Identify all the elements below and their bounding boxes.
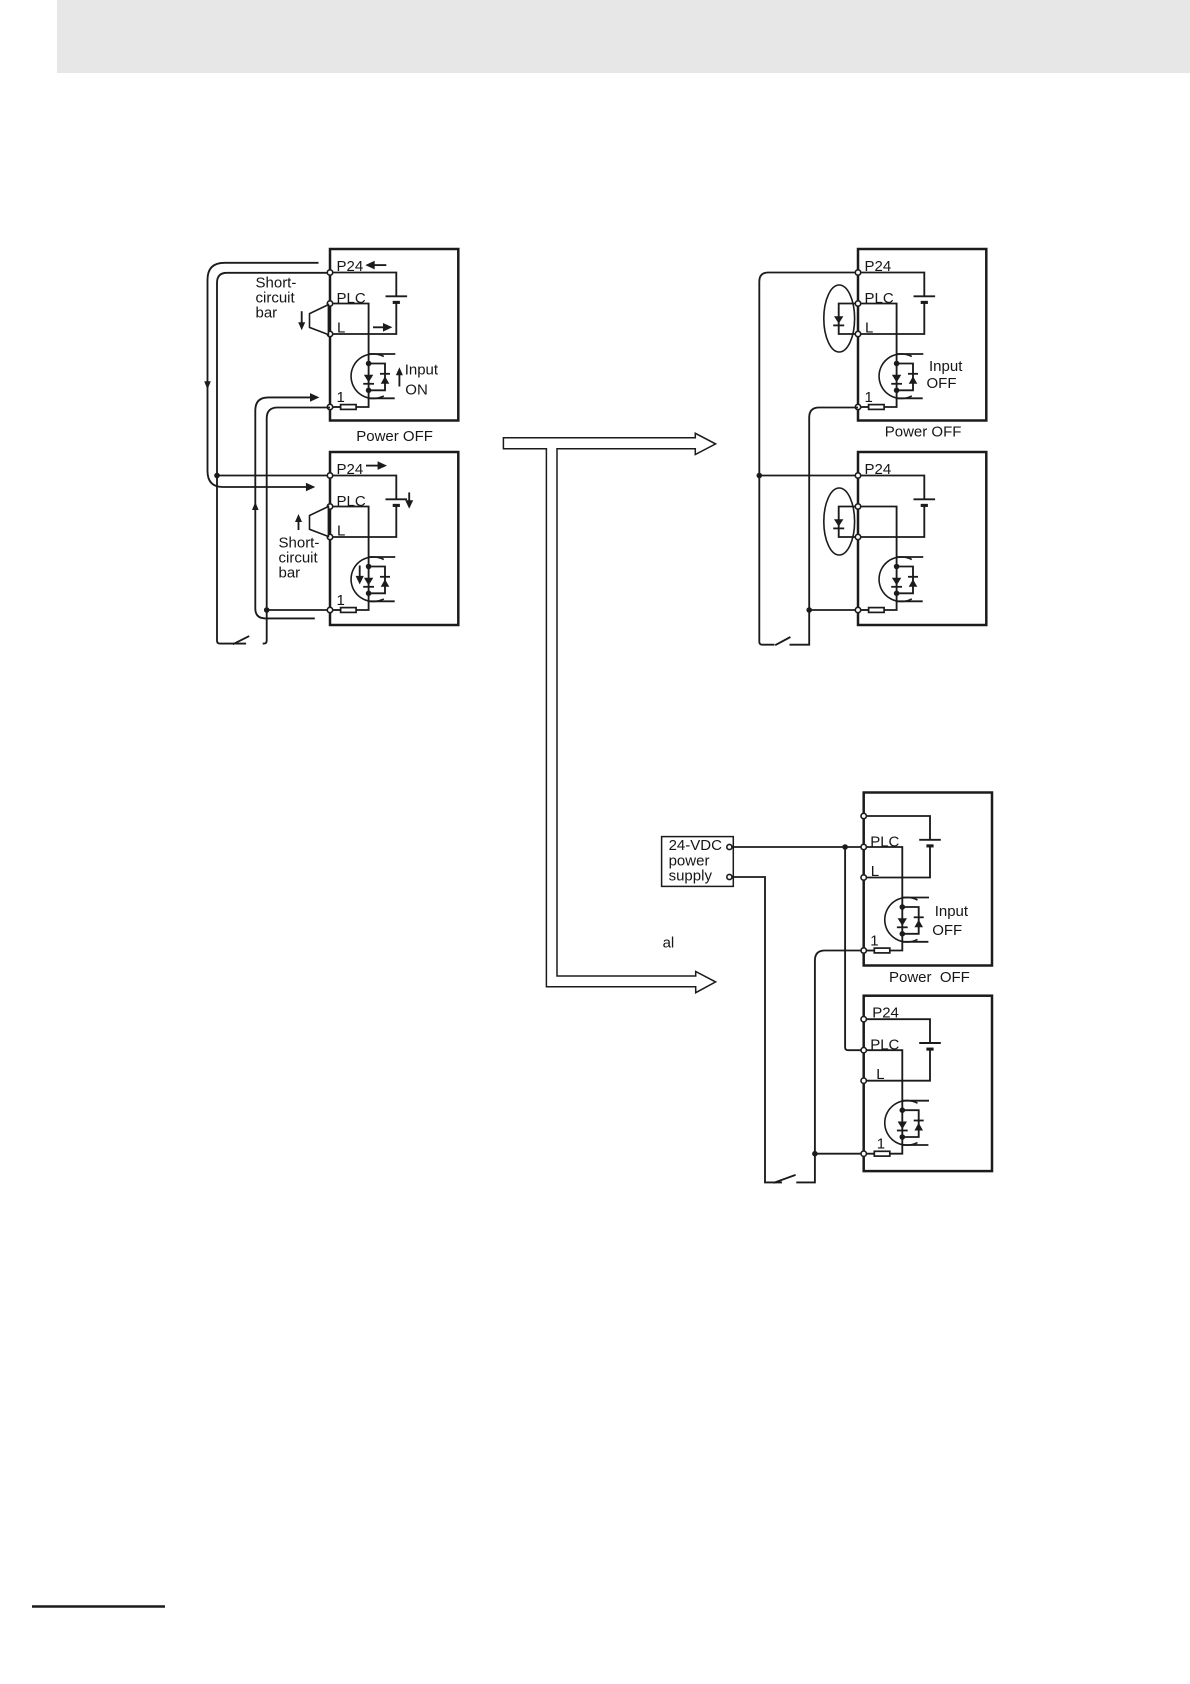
wire resistor to terminal 1 (C2) [864,1153,875,1155]
svg-text:PLC: PLC [337,290,366,307]
input resistor R-C2 [874,1151,890,1156]
svg-text:Power OFF: Power OFF [356,428,433,445]
LED diode branch (A2) [368,567,370,594]
battery B-A2 [386,498,408,500]
terminal P24 (B2) [855,473,860,478]
svg-text:ON: ON [405,382,428,399]
wire PLC to internal circuit (C1) [864,847,903,907]
PLC input unit B1 box [858,249,986,421]
terminal 1 (C1) [861,948,866,953]
junction node (B2) [894,591,900,597]
arrowhead into terminal 1 (A1) [310,393,319,402]
wire P24 to battery (A2) [330,476,396,500]
flow arrowhead down (outer loop) [204,381,211,389]
junction node (A2) [366,591,372,597]
terminal PLC (C1) [861,844,866,849]
wire resistor to terminal 1 (A2) [330,609,341,611]
wire battery to L (C2) [864,1049,930,1081]
svg-text:1: 1 [337,389,345,406]
wire PLC chain down to PLC (C2) [845,847,861,1050]
junction node P24 chain (right) [757,473,763,479]
page header band [57,0,1190,73]
svg-text:PLC: PLC [337,493,366,510]
optocoupler output rail top (C2) [902,1100,929,1102]
supply terminal - [727,874,732,879]
optocoupler output rail top (C1) [902,897,929,899]
current path indicator wire (inner loop) [255,397,314,618]
optocoupler output rail top (A1) [369,353,396,355]
arrow pointing to short-circuit bar (A1) [301,311,303,324]
wire supply + to PLC (C1) [732,846,861,848]
wire P24 to battery (A1) [330,273,396,297]
terminal L (B1) [855,331,860,336]
big outline arrow (transition) [503,433,715,992]
svg-text:1: 1 [870,932,878,949]
wire battery to L (B2) [858,505,924,537]
wire battery to L (B1) [858,302,924,334]
diode D-B1 across PLC-L [839,304,858,335]
battery B-B2 [914,498,936,500]
optocoupler U-A1 circle [351,354,384,399]
wire P24 to battery (B1) [858,273,924,297]
protection diode branch (A1) [369,364,385,391]
PLC input unit A2 box [330,452,458,625]
input ON arrow (A1) [398,374,400,387]
wire P24 chain (A1 to A2) [217,273,327,644]
svg-text:al: al [663,935,675,952]
terminal 1 (A2) [327,607,332,612]
wire PLC to internal circuit (A1) [330,304,369,364]
terminal PLC (A1) [327,301,332,306]
svg-text:P24: P24 [337,258,364,275]
svg-text:L: L [876,1066,884,1083]
wire branch to terminal 1 (A2) [267,609,328,611]
terminal 1 (A1) [327,404,332,409]
current direction arrow at L (A1) [373,326,385,328]
wire P24 to battery (C1) [864,816,930,840]
24-VDC power supply box [662,837,734,887]
wire resistor to terminal 1 (A1) [330,406,341,408]
svg-text:L: L [871,863,879,880]
wire battery to L (A1) [330,302,396,334]
battery B-C2 [919,1042,941,1044]
wire battery to L (A2) [330,505,396,537]
svg-text:L: L [337,522,345,539]
wire battery to L (C1) [864,846,930,878]
optocoupler output rail top (A2) [369,556,396,558]
terminal L (A2) [327,534,332,539]
short-circuit bar tag (A2) [310,507,329,537]
arrow current into P24 (A1) [373,264,386,266]
junction node (C2) [900,1107,906,1113]
power switch SW3 blade [774,1175,796,1183]
wire terminal-1 chain (C1 to C2) [796,951,861,1183]
optocoupler U-C2 circle [885,1101,918,1146]
wire PLC to internal circuit (B2) [858,507,897,567]
wire PLC to internal circuit (B1) [858,304,897,364]
flow arrowhead up (inner loop) [252,502,259,510]
wire PLC to internal circuit (C2) [864,1050,903,1110]
wire P24 to battery (B2) [858,476,924,500]
junction node (C2) [900,1134,906,1140]
wire PLC to internal circuit (A2) [330,507,369,567]
junction node (A2) [366,564,372,570]
junction node terminal-1 chain (right) [806,607,812,613]
protection diode branch (C2) [902,1110,918,1137]
LED diode branch (B1) [896,364,898,391]
input resistor R-A2 [341,608,357,613]
terminal 1 (B1) [855,404,860,409]
svg-text:OFF: OFF [932,922,962,939]
svg-text:P24: P24 [865,461,892,478]
wire branch to P24 (B2) [759,475,855,477]
terminal pin (B2) [855,607,860,612]
wire opto to resistor (B1) [884,390,897,407]
optocoupler U-C1 circle [885,897,918,942]
terminal PLC (A2) [327,504,332,509]
optocoupler output rail bottom (A2) [369,600,395,602]
svg-text:1: 1 [877,1136,885,1153]
svg-text:OFF: OFF [927,375,957,392]
protection diode branch (B1) [897,364,913,391]
arrow current out of P24 (A2) [366,465,379,467]
terminal PLC (C2) [861,1048,866,1053]
wire branch to terminal 1 (B2) [809,609,855,611]
terminal P24 (A1) [327,270,332,275]
LED current arrow (A2) [359,566,361,578]
wire resistor to terminal 1 (B2) [858,609,869,611]
junction node (A1) [366,361,372,367]
PLC input unit B2 box [858,452,986,625]
wire P24 chain (B1 to B2) [759,273,855,645]
wire P24 to battery (C2) [864,1019,930,1043]
LED diode branch (C2) [901,1110,903,1137]
optocoupler output rail bottom (B2) [897,600,923,602]
svg-text:Power OFF: Power OFF [885,424,962,441]
short-circuit bar tag (A1) [310,305,329,335]
svg-text:1: 1 [337,592,345,609]
junction node (B1) [894,388,900,394]
external diode with highlight ellipse (B1) [824,285,855,352]
PLC input unit C1 box [864,793,992,966]
PLC input unit A1 box [330,249,458,421]
battery B-B1 [914,295,936,297]
svg-text:L: L [337,319,345,336]
PLC input unit C2 box [864,996,992,1171]
LED diode branch (C1) [901,907,903,934]
wire terminal-1 chain (B1 to B2) [790,408,859,645]
diode D-B2 across PLC-L [839,507,858,538]
optocoupler U-B1 circle [879,354,912,399]
wire branch to terminal 1 (C2) [815,1153,861,1155]
svg-text:P24: P24 [865,258,892,275]
power switch SW1 blade [233,636,249,644]
wire resistor to terminal 1 (C1) [864,950,875,952]
svg-text:PLC: PLC [870,834,899,851]
junction node (C1) [900,904,906,910]
optocoupler U-A2 circle [351,557,384,602]
protection diode branch (C1) [902,907,918,934]
wire opto to resistor (B2) [884,593,897,610]
terminal L (C1) [861,875,866,880]
optocoupler output rail top (B2) [897,556,924,558]
svg-text:bar: bar [256,305,278,322]
svg-text:Power OFF: Power OFF [889,969,970,986]
protection diode branch (A2) [369,567,385,594]
svg-text:PLC: PLC [865,290,894,307]
svg-text:bar: bar [279,565,301,582]
svg-text:PLC: PLC [870,1037,899,1054]
battery discharge arrow (A2) [408,492,410,501]
wire terminal-1 chain (A1 to A2) [263,408,330,644]
junction node (A1) [366,388,372,394]
wire branch to P24 (A2) [217,475,327,477]
supply terminal + [727,844,732,849]
junction node (B1) [894,361,900,367]
terminal pin (B2) [855,534,860,539]
terminal P24 (B1) [855,270,860,275]
junction node terminal-1 chain [264,607,270,613]
arrowhead into unit A2 [306,483,315,492]
junction node P24 chain [214,473,220,479]
LED diode branch (A1) [368,364,370,391]
wire opto to resistor (C1) [890,934,903,951]
external diode with highlight ellipse (B2) [824,488,855,555]
terminal L (C2) [861,1078,866,1083]
input resistor R-C1 [874,948,890,953]
optocoupler output rail top (B1) [897,353,924,355]
terminal P24 (C2) [861,1017,866,1022]
optocoupler output rail bottom (B1) [897,397,923,399]
footer rule [32,1605,165,1608]
wire opto to resistor (C2) [890,1137,903,1154]
wire opto to resistor (A1) [356,390,369,407]
svg-text:Input: Input [929,358,963,375]
wire supply - to switch [732,877,782,1182]
svg-text:1: 1 [865,389,873,406]
battery B-A1 [386,295,408,297]
input resistor R-B2 [869,608,885,613]
svg-text:Input: Input [935,903,969,920]
terminal pin (C1) [861,813,866,818]
terminal PLC (B1) [855,301,860,306]
junction node PLC chain [842,844,848,850]
junction node terminal-1 chain (bottom) [812,1151,818,1157]
input resistor R-A1 [341,405,357,410]
svg-text:Input: Input [405,362,439,379]
junction node (C1) [900,931,906,937]
terminal P24 (A2) [327,473,332,478]
arrow pointing to short-circuit bar (A2) [298,521,300,531]
svg-text:P24: P24 [872,1005,899,1022]
wire resistor to terminal 1 (B1) [858,406,869,408]
svg-text:supply: supply [669,868,713,885]
svg-text:L: L [865,319,873,336]
optocoupler output rail bottom (A1) [369,397,395,399]
power switch SW2 blade [775,637,790,645]
terminal 1 (C2) [861,1151,866,1156]
input resistor R-B1 [869,405,885,410]
protection diode branch (B2) [897,567,913,594]
battery B-C1 [919,839,941,841]
wire opto to resistor (A2) [356,593,369,610]
optocoupler output rail bottom (C2) [902,1144,928,1146]
optocoupler output rail bottom (C1) [902,941,928,943]
terminal L (A1) [327,331,332,336]
terminal pin (B2) [855,504,860,509]
optocoupler U-B2 circle [879,557,912,602]
svg-text:P24: P24 [337,461,364,478]
current path indicator wire (left outer loop) [208,263,319,487]
LED diode branch (B2) [896,567,898,594]
junction node (B2) [894,564,900,570]
